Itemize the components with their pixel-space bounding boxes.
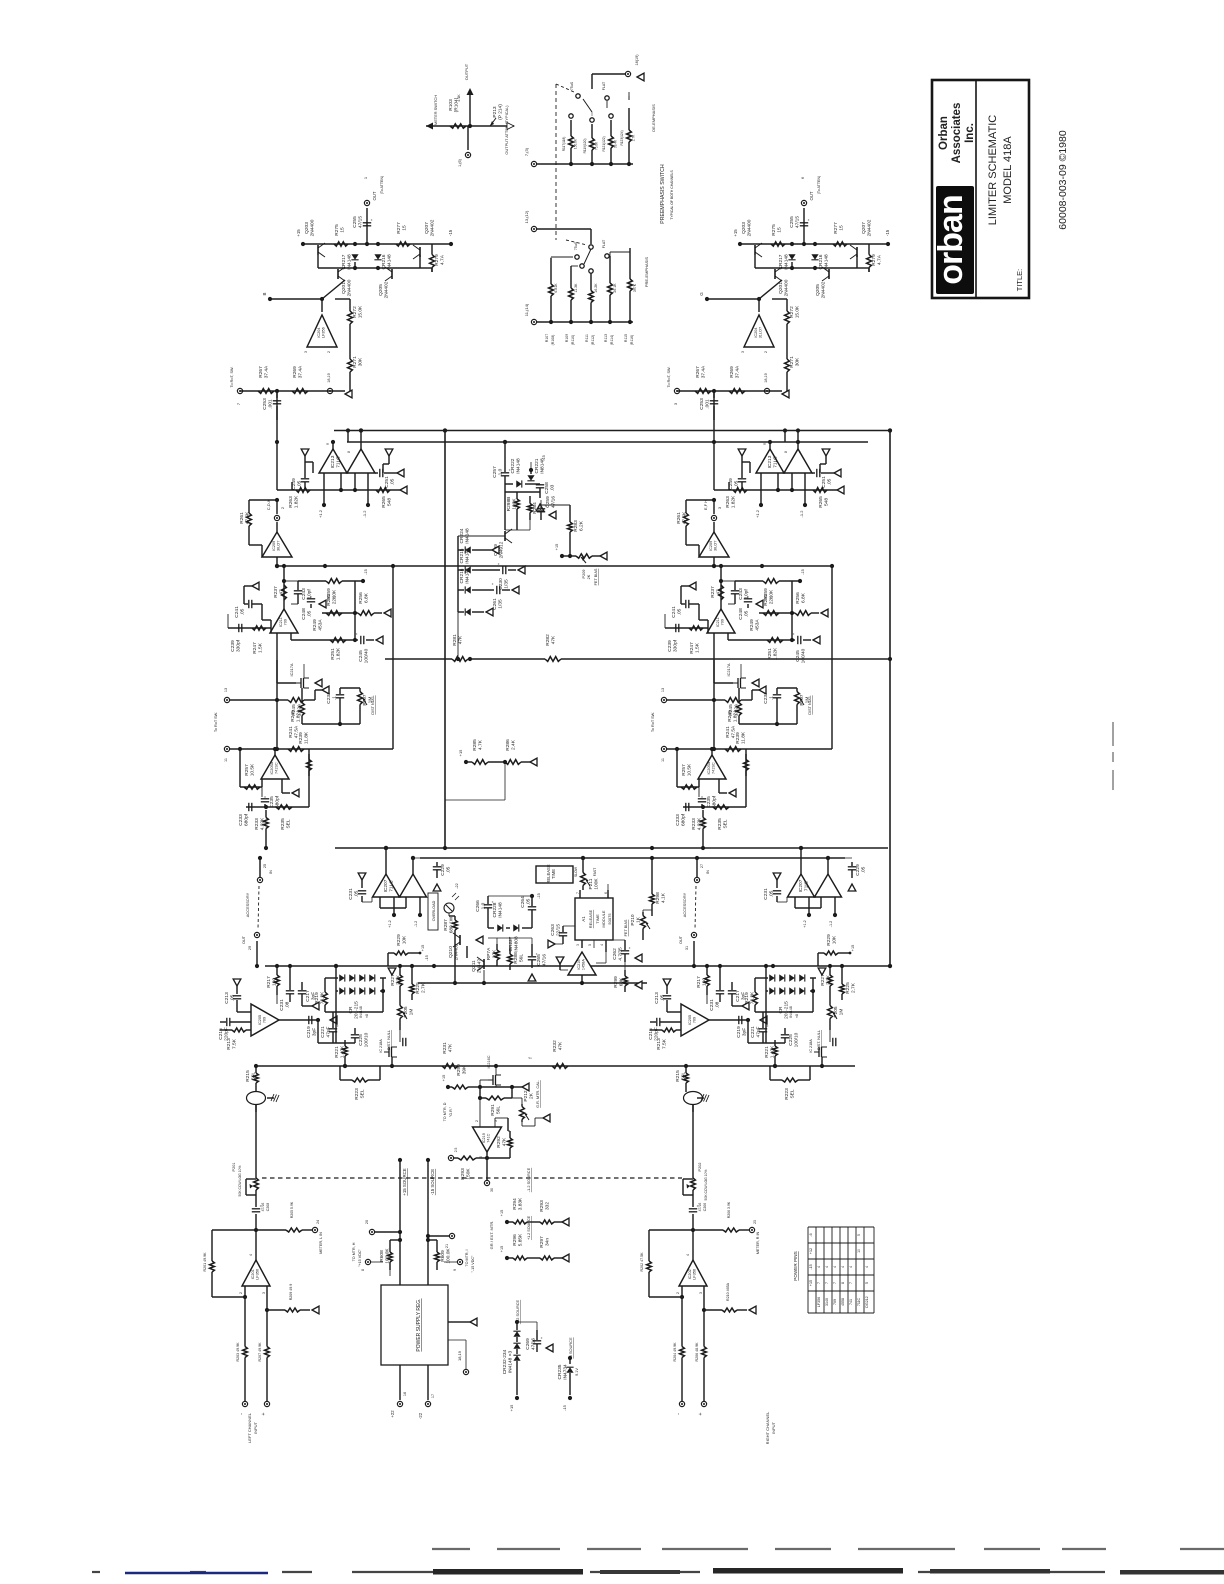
svg-text:FAST: FAST (593, 868, 597, 876)
svg-text:1.40K: 1.40K (340, 1045, 346, 1058)
svg-text:-: - (676, 1413, 682, 1415)
svg-text:3: 3 (717, 506, 722, 509)
svg-text:R217: R217 (696, 976, 702, 988)
svg-text:+: + (369, 218, 374, 221)
svg-text:10.5K: 10.5K (687, 763, 693, 776)
svg-text:R288: R288 (513, 952, 519, 964)
svg-text:R277: R277 (396, 222, 402, 234)
svg-text:IC217A: IC217A (726, 663, 731, 676)
svg-text:4: 4 (849, 1266, 853, 1268)
svg-text:R232: R232 (552, 1040, 558, 1052)
svg-text:G: G (699, 292, 704, 296)
svg-text:Orban: Orban (938, 116, 950, 150)
svg-text:2.2K: 2.2K (826, 974, 832, 985)
svg-text:11.3K: 11.3K (574, 283, 578, 293)
svg-text:6.8K: 6.8K (801, 592, 807, 603)
svg-text:2N44?: 2N44? (477, 959, 483, 973)
svg-text:P201: P201 (232, 1163, 236, 1172)
svg-text:37.4A: 37.4A (735, 365, 741, 378)
svg-text:332: 332 (545, 1202, 551, 1210)
svg-text:METER SWITCH: METER SWITCH (433, 95, 438, 125)
svg-text:P209: P209 (582, 570, 586, 579)
svg-text:-15: -15 (885, 229, 890, 236)
svg-text:R219: R219 (314, 992, 320, 1004)
svg-text:R213: R213 (656, 1038, 662, 1050)
svg-text:FET BIAS: FET BIAS (594, 568, 598, 585)
svg-text:R269: R269 (729, 366, 735, 378)
svg-text:C251: C251 (384, 476, 390, 488)
svg-text:741SC: 741SC (275, 762, 279, 774)
svg-text:IC204: IC204 (754, 328, 758, 338)
svg-text:-22: -22 (455, 883, 459, 889)
svg-text:R213: R213 (226, 1038, 232, 1050)
svg-text:180: 180 (702, 978, 708, 986)
svg-text:5: 5 (857, 1234, 861, 1236)
svg-text:OUTPUT ATTEN (TYPICAL): OUTPUT ATTEN (TYPICAL) (504, 105, 509, 155)
svg-text:POWER SUPPLY REG.: POWER SUPPLY REG. (416, 1298, 422, 1351)
svg-text:.05: .05 (526, 898, 532, 905)
svg-text:R235: R235 (280, 818, 286, 830)
svg-text:R286: R286 (505, 739, 511, 751)
svg-text:R117(118): R117(118) (562, 137, 566, 152)
svg-text:7: 7 (236, 402, 241, 405)
svg-text:R109: R109 (565, 334, 569, 342)
svg-text:1M: 1M (409, 1009, 415, 1016)
svg-text:R210 465A: R210 465A (726, 1282, 730, 1301)
svg-text:OUT: OUT (242, 935, 246, 944)
svg-text:R292: R292 (496, 1136, 502, 1148)
svg-text:18,19: 18,19 (327, 373, 331, 383)
svg-text:R237: R237 (273, 586, 279, 598)
svg-text:1.82A: 1.82A (733, 709, 739, 722)
svg-text:Q203: Q203 (304, 222, 310, 234)
svg-text:1.5K: 1.5K (695, 642, 701, 653)
svg-text:R231: R231 (442, 1042, 448, 1054)
svg-text:C243: C243 (301, 588, 307, 600)
svg-text:4.7A: 4.7A (440, 254, 446, 265)
svg-text:-: - (239, 1413, 245, 1415)
svg-text:11.8K: 11.8K (741, 731, 747, 744)
svg-text:R121(122): R121(122) (602, 136, 606, 151)
svg-text:10K: 10K (832, 935, 838, 944)
svg-text:6.2K: 6.2K (579, 520, 585, 531)
svg-text:100/10: 100/10 (364, 1032, 370, 1047)
svg-text:47K: 47K (448, 1043, 454, 1052)
svg-text:15.0K: 15.0K (358, 305, 364, 318)
svg-text:709: 709 (262, 1017, 266, 1023)
svg-text:R251: R251 (330, 648, 336, 660)
svg-text:R206 3.9K: R206 3.9K (727, 1201, 731, 1218)
svg-text:R298: R298 (655, 892, 661, 904)
svg-text:1K: 1K (636, 916, 642, 923)
svg-text:+: + (490, 582, 495, 585)
svg-text:C230: C230 (498, 578, 504, 590)
svg-text:741C: 741C (487, 1133, 491, 1142)
svg-text:IC209: IC209 (272, 541, 276, 551)
svg-text:R251: R251 (767, 648, 773, 660)
svg-text:R281: R281 (452, 634, 458, 646)
svg-text:47/16: 47/16 (551, 496, 557, 508)
svg-text:R229: R229 (396, 934, 402, 946)
svg-text:3140: 3140 (825, 1298, 829, 1306)
svg-text:C219: C219 (306, 1026, 312, 1038)
svg-text:METER, L IN: METER, L IN (319, 1232, 323, 1254)
svg-text:2: 2 (327, 351, 331, 353)
svg-text:-15: -15 (424, 955, 429, 961)
svg-text:C241: C241 (234, 606, 240, 618)
svg-text:R111: R111 (585, 334, 589, 342)
svg-text:R115: R115 (624, 334, 628, 342)
svg-text:4: 4 (600, 944, 604, 946)
svg-text:TO MTR, D: TO MTR, D (443, 1102, 447, 1121)
svg-text:R241: R241 (288, 726, 294, 738)
svg-text:1.82K: 1.82K (294, 495, 300, 508)
svg-text:2N4400: 2N4400 (784, 279, 790, 296)
svg-text:R277: R277 (833, 222, 839, 234)
svg-text:27: 27 (700, 864, 704, 868)
svg-text:R217: R217 (266, 976, 272, 988)
svg-text:23: 23 (753, 1220, 757, 1224)
svg-text:47/15: 47/15 (358, 216, 364, 228)
svg-text:330pf: 330pf (236, 639, 242, 652)
svg-text:330pf: 330pf (673, 639, 679, 652)
svg-text:+15: +15 (421, 945, 425, 951)
svg-text:C239: C239 (230, 640, 236, 652)
svg-text:R103: R103 (448, 99, 454, 111)
svg-text:ACCESSORY: ACCESSORY (245, 892, 250, 917)
svg-text:(To ATTEN): (To ATTEN) (817, 176, 821, 195)
svg-text:R209 49.9: R209 49.9 (289, 1284, 293, 1301)
svg-text:R123(124): R123(124) (620, 130, 624, 145)
svg-text:-15: -15 (364, 569, 368, 575)
svg-text:INPUT: INPUT (253, 1421, 258, 1434)
svg-text:(To ATTEN): (To ATTEN) (380, 176, 384, 195)
svg-text:C257: C257 (492, 466, 498, 478)
svg-text:.05: .05 (240, 608, 246, 615)
svg-text:R299: R299 (613, 976, 619, 988)
svg-text:4: 4 (841, 1266, 845, 1268)
svg-text:47K: 47K (502, 1137, 508, 1146)
svg-text:.05: .05 (744, 610, 750, 617)
svg-text:-15: -15 (542, 455, 546, 461)
svg-text:C248: C248 (738, 608, 744, 620)
svg-text:CR222: CR222 (510, 458, 516, 473)
svg-text:Associates: Associates (951, 103, 963, 164)
svg-text:47/16: 47/16 (698, 1203, 702, 1212)
svg-text:3: 3 (741, 351, 745, 353)
svg-text:9: 9 (453, 1269, 457, 1271)
svg-text:29: 29 (248, 946, 252, 950)
svg-text:R233: R233 (254, 818, 260, 830)
svg-text:C225: C225 (358, 1034, 364, 1046)
svg-text:R221: R221 (764, 1046, 770, 1058)
svg-text:Q205: Q205 (815, 284, 821, 296)
svg-text:1: 1 (363, 176, 368, 179)
svg-text:10K: 10K (492, 949, 498, 958)
svg-text:15: 15 (839, 225, 845, 231)
svg-text:.05: .05 (677, 608, 683, 615)
svg-text:15: 15 (777, 227, 783, 233)
svg-text:IN4148 ×3: IN4148 ×3 (508, 1351, 514, 1374)
svg-text:C233: C233 (238, 814, 244, 826)
svg-text:R272: R272 (789, 306, 795, 318)
svg-text:3: 3 (673, 402, 678, 405)
svg-text:R296: R296 (512, 1234, 518, 1246)
svg-text:SEL: SEL (723, 819, 729, 828)
svg-text:71LC: 71LC (773, 456, 779, 468)
svg-text:+15 SOURCE: +15 SOURCE (402, 1168, 407, 1196)
svg-text:(R110): (R110) (571, 335, 575, 345)
svg-text:+: + (261, 1412, 267, 1415)
svg-text:1.0: 1.0 (498, 468, 504, 475)
svg-text:+1.2: +1.2 (755, 509, 760, 518)
svg-text:Q203: Q203 (741, 222, 747, 234)
svg-text:-6: -6 (809, 1233, 813, 1236)
svg-text:R265: R265 (818, 496, 824, 508)
svg-text:3ILO?: 3ILO? (277, 541, 281, 551)
svg-text:9: 9 (326, 443, 330, 445)
svg-text:SEL: SEL (790, 1089, 796, 1098)
svg-text:47uF: 47uF (756, 1026, 762, 1037)
svg-text:180: 180 (272, 978, 278, 986)
svg-text:7: 7 (825, 1282, 829, 1284)
svg-text:MODEL 418A: MODEL 418A (1002, 136, 1014, 204)
svg-text:C241: C241 (671, 606, 677, 618)
svg-text:3: 3 (304, 351, 308, 353)
svg-text:B: B (262, 292, 267, 295)
svg-text:R119(120): R119(120) (583, 139, 587, 154)
svg-text:10K: 10K (402, 935, 408, 944)
svg-text:DIST NULL: DIST NULL (371, 695, 375, 714)
svg-text:POWER PINS: POWER PINS (793, 1251, 798, 1280)
svg-text:C235: C235 (269, 796, 275, 808)
svg-text:-22: -22 (418, 1412, 423, 1419)
svg-text:R290: R290 (456, 1064, 462, 1076)
svg-text:INPUT: INPUT (771, 1421, 776, 1434)
svg-text:709: 709 (833, 1299, 837, 1305)
svg-text:R263: R263 (725, 496, 731, 508)
svg-text:CR227: CR227 (508, 936, 514, 951)
svg-text:15: 15 (340, 227, 346, 233)
svg-text:FLAT: FLAT (602, 81, 606, 90)
svg-text:-15: -15 (562, 1405, 567, 1411)
svg-text:G.R. MTR. CAL.: G.R. MTR. CAL. (536, 1080, 540, 1108)
svg-text:.1: .1 (769, 696, 775, 700)
svg-text:IC211: IC211 (279, 617, 283, 627)
svg-text:IC204: IC204 (317, 328, 321, 338)
svg-text:R207 49.9K: R207 49.9K (258, 1342, 262, 1362)
svg-text:R279: R279 (871, 254, 877, 266)
svg-text:47uF: 47uF (326, 1026, 332, 1037)
svg-text:100/40: 100/40 (801, 648, 807, 663)
svg-text:548: 548 (824, 498, 830, 506)
svg-text:1/35: 1/35 (504, 579, 510, 589)
svg-text:-15: -15 (801, 569, 805, 575)
svg-text:C229: C229 (855, 864, 861, 876)
svg-text:2N4400: 2N4400 (347, 279, 353, 296)
svg-text:-15 SOURCE: -15 SOURCE (430, 1169, 435, 1195)
svg-text:50K CCW LOG 10%: 50K CCW LOG 10% (238, 1166, 242, 1197)
svg-text:-1.2: -1.2 (799, 510, 804, 518)
svg-text:680pf: 680pf (681, 813, 687, 826)
svg-text:(P 214): (P 214) (498, 104, 504, 120)
svg-text:.05: .05 (660, 994, 666, 1001)
svg-text:3ILO?: 3ILO? (714, 541, 718, 551)
svg-text:.05: .05 (307, 610, 313, 617)
svg-text:+15: +15 (555, 544, 559, 550)
svg-text:R297: R297 (539, 1236, 545, 1248)
svg-text:+15: +15 (851, 945, 855, 951)
svg-text:R201 49.9K: R201 49.9K (203, 1252, 207, 1272)
svg-text:IN4148: IN4148 (498, 902, 504, 918)
svg-text:7: 7 (833, 1282, 837, 1284)
svg-text:LF356: LF356 (817, 1297, 821, 1307)
svg-text:5: 5 (588, 944, 592, 946)
svg-text:IC211: IC211 (716, 617, 720, 627)
svg-text:R283: R283 (573, 520, 579, 532)
svg-text:397K: 397K (633, 283, 637, 292)
svg-text:4: 4 (817, 1266, 821, 1268)
svg-text:100.0K: 100.0K (385, 1248, 391, 1264)
svg-text:4.7A: 4.7A (877, 254, 883, 265)
svg-text:2.2K: 2.2K (396, 974, 402, 985)
svg-text:P202: P202 (698, 1163, 702, 1172)
svg-text:741: 741 (849, 1299, 853, 1305)
svg-text:ACCESSORY: ACCESSORY (682, 892, 687, 917)
svg-text:IC205A: IC205A (707, 761, 711, 774)
svg-text:IC209: IC209 (709, 541, 713, 551)
svg-text:IN4734: IN4734 (563, 1364, 569, 1380)
svg-text:SEL: SEL (286, 819, 292, 828)
svg-text:71LC: 71LC (336, 456, 342, 468)
svg-text:R204 49.9K: R204 49.9K (673, 1342, 677, 1362)
svg-text:8: 8 (347, 451, 351, 453)
svg-text:22/15: 22/15 (556, 924, 562, 936)
svg-text:1.82K: 1.82K (336, 647, 342, 660)
svg-text:R261: R261 (239, 512, 245, 524)
svg-text:Q207: Q207 (861, 222, 867, 234)
svg-text:22K: 22K (769, 595, 775, 604)
svg-text:×8: ×8 (365, 1014, 369, 1018)
svg-text:50K CCW LOG 10%: 50K CCW LOG 10% (704, 1170, 708, 1201)
svg-text:.08: .08 (285, 1001, 291, 1008)
svg-text:OUTPUT: OUTPUT (464, 63, 469, 80)
svg-text:R239: R239 (735, 732, 741, 744)
svg-text:LF356: LF356 (693, 1269, 697, 1280)
svg-text:6: 6 (800, 176, 805, 179)
svg-text:13: 13 (224, 688, 228, 692)
svg-text:18,19: 18,19 (457, 1350, 462, 1361)
svg-text:C231: C231 (763, 888, 769, 900)
svg-text:R275: R275 (334, 224, 340, 236)
svg-text:(R108): (R108) (551, 335, 555, 346)
svg-text:SLOW: SLOW (574, 866, 578, 877)
svg-text:7.5K: 7.5K (662, 1038, 668, 1049)
svg-text:E,F H: E,F H (703, 500, 708, 510)
svg-text:+15: +15 (442, 1075, 446, 1081)
svg-text:1.5K: 1.5K (258, 642, 264, 653)
svg-text:25: 25 (263, 864, 267, 868)
svg-text:.05: .05 (354, 890, 360, 897)
svg-text:39K: 39K (462, 1065, 468, 1074)
svg-text:709: 709 (721, 619, 725, 625)
svg-text:60008-003-09 ©1980: 60008-003-09 ©1980 (1057, 130, 1069, 230)
svg-text:IN: IN (269, 870, 273, 874)
svg-text:7: 7 (817, 1282, 821, 1284)
svg-text:+1.2: +1.2 (388, 920, 392, 928)
svg-text:R291: R291 (490, 1104, 496, 1116)
svg-text:4.1K: 4.1K (457, 94, 461, 102)
svg-text:-1.2: -1.2 (362, 510, 367, 518)
svg-text:2N4402: 2N4402 (867, 219, 873, 236)
svg-text:=: = (798, 451, 802, 453)
svg-text:7,(3): 7,(3) (524, 147, 529, 156)
svg-text:R205 5.9K: R205 5.9K (290, 1201, 294, 1218)
svg-text:11.8K: 11.8K (304, 731, 310, 744)
svg-text:71LC: 71LC (389, 880, 395, 892)
svg-text:R241: R241 (725, 726, 731, 738)
svg-text:75.0K: 75.0K (595, 141, 599, 150)
svg-text:4: 4 (825, 1266, 829, 1268)
svg-text:+: + (539, 1336, 544, 1339)
svg-text:8: 8 (361, 1269, 365, 1271)
svg-text:1.82K: 1.82K (731, 495, 737, 508)
svg-text:-6 SOURCE: -6 SOURCE (568, 1337, 573, 1359)
svg-text:R608: R608 (379, 1250, 385, 1262)
svg-text:C231: C231 (348, 888, 354, 900)
svg-text:10pf: 10pf (307, 589, 313, 599)
svg-text:17: 17 (431, 1394, 435, 1398)
svg-text:LF356: LF356 (322, 327, 326, 338)
svg-text:=: = (361, 451, 365, 453)
svg-text:IN4148: IN4148 (465, 568, 471, 584)
svg-text:100.0K: 100.0K (446, 1248, 452, 1264)
svg-text:47: 47 (279, 589, 285, 595)
svg-text:+15: +15 (809, 1280, 813, 1286)
svg-text:C255: C255 (789, 216, 795, 228)
svg-text:2.4K: 2.4K (511, 739, 517, 750)
svg-text:50075: 50075 (607, 913, 612, 925)
svg-text:71IC: 71IC (804, 880, 810, 891)
svg-text:30K: 30K (795, 357, 801, 366)
svg-text:R227: R227 (820, 974, 826, 986)
svg-text:FLAT: FLAT (602, 239, 606, 248)
svg-text:.05: .05 (297, 480, 303, 487)
svg-text:47/16: 47/16 (542, 954, 548, 966)
svg-text:P207: P207 (799, 694, 805, 706)
svg-text:P210: P210 (630, 914, 636, 926)
svg-text:×8: ×8 (795, 1014, 799, 1018)
svg-text:-1.2 SOURCE: -1.2 SOURCE (526, 1167, 531, 1192)
svg-text:4: 4 (833, 1266, 837, 1268)
svg-text:548: 548 (387, 498, 393, 506)
svg-text:+1.2: +1.2 (803, 920, 807, 928)
svg-text:24: 24 (316, 1220, 320, 1224)
svg-text:C255: C255 (352, 216, 358, 228)
svg-text:100K: 100K (512, 498, 518, 510)
svg-text:DIST NULL: DIST NULL (808, 695, 812, 714)
svg-text:13,(12): 13,(12) (524, 210, 529, 223)
svg-text:R249: R249 (749, 619, 755, 631)
svg-text:MODULE: MODULE (601, 910, 606, 927)
svg-text:R225: R225 (845, 982, 851, 994)
svg-text:R279: R279 (434, 254, 440, 266)
svg-text:"+15 VDC": "+15 VDC" (358, 1248, 362, 1266)
svg-text:R256: R256 (795, 592, 801, 604)
svg-text:10pf: 10pf (744, 589, 750, 599)
svg-text:IC205: IC205 (258, 1015, 262, 1025)
svg-text:TYPICAL OF BOTH CHANNELS: TYPICAL OF BOTH CHANNELS (670, 170, 674, 220)
